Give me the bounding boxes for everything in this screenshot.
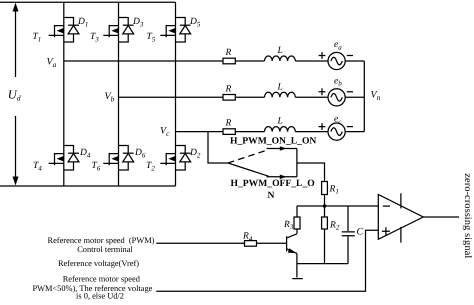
diode D1 (64, 18, 79, 43)
svg-text:H_PWM_OFF_L_O: H_PWM_OFF_L_O (231, 178, 315, 189)
svg-text:R1: R1 (329, 184, 339, 195)
svg-text:R3: R3 (283, 220, 294, 231)
svg-text:Va: Va (47, 57, 57, 70)
Ud voltage arrow (13, 3, 19, 186)
svg-text:Reference voltage(Vref): Reference voltage(Vref) (58, 259, 139, 268)
svg-text:T1: T1 (33, 32, 42, 43)
svg-text:C: C (357, 227, 364, 238)
svg-text:L: L (277, 117, 283, 127)
polarity minus phase B (347, 91, 353, 93)
inverter leg A wire (63, 2, 65, 186)
wire comparator minus input (297, 205, 378, 207)
inductor L phase C (265, 127, 296, 132)
capacitor C (342, 206, 355, 264)
wire Vref to comparator plus input (156, 230, 378, 291)
dashed signal path H_PWM_ON_L_ON (228, 150, 269, 163)
transistor T1 (49, 25, 64, 37)
svg-text:T5: T5 (147, 32, 156, 43)
svg-text:R: R (225, 84, 232, 94)
wire phase B (119, 96, 365, 98)
wire comparator output (423, 216, 459, 218)
svg-text:D3: D3 (132, 17, 144, 28)
polarity plus phase A (319, 52, 326, 59)
svg-text:D1: D1 (77, 17, 88, 28)
resistor R phase B (223, 95, 235, 101)
arrowhead ON path (280, 146, 287, 151)
svg-text:D6: D6 (134, 148, 146, 159)
transistor T5 (160, 25, 175, 37)
wire merge vertical (296, 149, 298, 177)
resistor R4 (245, 241, 257, 247)
svg-text:N: N (268, 190, 275, 201)
svg-text:T4: T4 (33, 161, 42, 172)
transistor T2 (160, 153, 175, 165)
AC source ea (328, 52, 345, 69)
svg-text:eb: eb (334, 76, 342, 87)
resistor R3 (294, 206, 300, 234)
diode D2 (176, 146, 191, 171)
wire phase A (64, 60, 365, 62)
polarity plus phase C (319, 123, 326, 130)
arrowhead OFF path (280, 175, 287, 180)
svg-text:Vb: Vb (105, 91, 115, 104)
svg-text:Reference motor speed (PWM): Reference motor speed (PWM) (48, 236, 155, 245)
junction dot (323, 204, 327, 208)
svg-text:Vn: Vn (371, 89, 381, 102)
resistor R1 (322, 182, 328, 195)
svg-text:D2: D2 (189, 148, 201, 159)
wire PWM control to R4 (156, 242, 244, 244)
transistor T6 (103, 153, 118, 165)
ground (292, 278, 302, 280)
diode D3 (119, 18, 134, 43)
wire to R1 (297, 163, 325, 182)
svg-text:ea: ea (334, 40, 342, 51)
svg-text:T2: T2 (146, 161, 155, 172)
diode D4 (64, 146, 79, 171)
svg-text:zero-crossing signal: zero-crossing signal (462, 173, 473, 258)
inverter leg B wire (118, 2, 120, 186)
resistor R phase A (223, 58, 235, 64)
svg-text:T3: T3 (90, 32, 99, 43)
wire phase C (176, 131, 365, 133)
svg-text:Vc: Vc (160, 125, 170, 138)
svg-text:R: R (225, 48, 232, 58)
bottom DC rail wire (0, 185, 176, 187)
AC source eb (328, 89, 345, 106)
diode D6 (119, 146, 134, 171)
neutral bus wire (363, 61, 365, 132)
svg-text:D5: D5 (189, 17, 201, 28)
svg-text:Control terminal: Control terminal (77, 245, 133, 254)
AC source ec (328, 123, 345, 140)
inductor L phase B (265, 92, 296, 97)
resistor R phase C (223, 129, 235, 135)
svg-text:ec: ec (334, 115, 342, 126)
svg-text:Ud: Ud (8, 87, 21, 102)
top DC rail wire (0, 1, 176, 3)
inductor L phase A (265, 56, 296, 61)
svg-text:Reference motor speed: Reference motor speed (63, 274, 141, 283)
wire R1 to junction (324, 195, 326, 207)
wire emitter to ground (296, 253, 298, 277)
svg-text:is 0, else Ud/2: is 0, else Ud/2 (76, 292, 124, 301)
diode D5 (176, 18, 191, 43)
svg-text:R2: R2 (329, 220, 340, 231)
solid signal path H_PWM_OFF_L_ON (228, 163, 297, 177)
polarity plus phase B (319, 88, 326, 95)
svg-text:L: L (277, 82, 283, 92)
wire RC bottom rail (297, 263, 348, 265)
svg-text:L: L (277, 46, 283, 56)
polarity minus phase C (347, 126, 353, 128)
transistor T4 (49, 153, 64, 165)
op-amp comparator U1 (378, 193, 423, 242)
svg-text:H_PWM_ON_L_ON: H_PWM_ON_L_ON (230, 136, 316, 147)
svg-text:R4: R4 (242, 232, 253, 243)
svg-text:D4: D4 (79, 148, 91, 159)
svg-text:T6: T6 (92, 161, 101, 172)
svg-text:R: R (225, 119, 232, 129)
wire tap from phase C (208, 132, 228, 163)
inverter leg C wire (175, 2, 177, 186)
wire R4 to base (257, 242, 287, 244)
transistor Q1 NPN (287, 234, 297, 254)
resistor R2 (322, 206, 328, 264)
transistor T3 (103, 25, 118, 37)
polarity minus phase A (347, 55, 353, 57)
